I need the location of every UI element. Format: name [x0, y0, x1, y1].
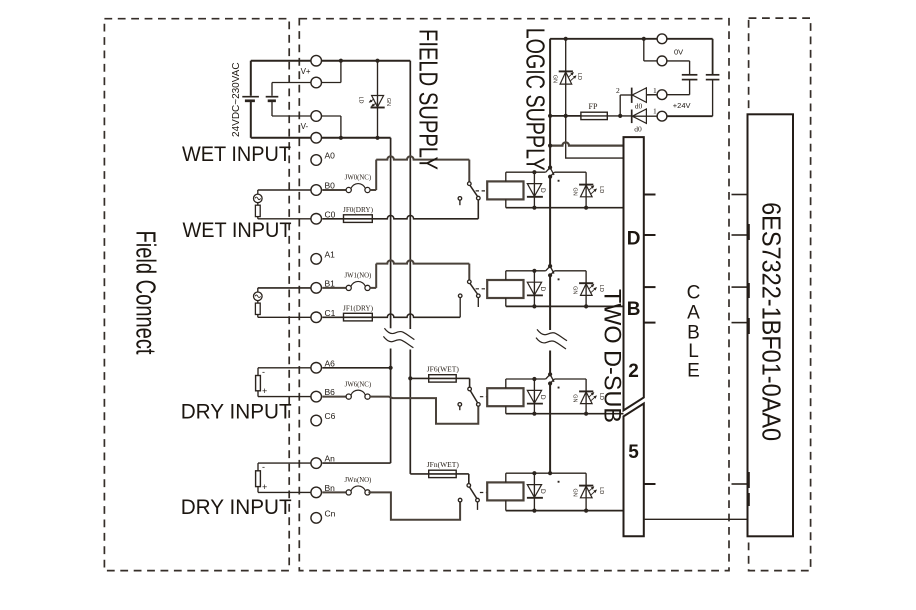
- svg-text:5: 5: [628, 442, 639, 463]
- svg-text:JW0(NC): JW0(NC): [345, 175, 371, 182]
- svg-text:1: 1: [653, 86, 657, 95]
- svg-text:V+: V+: [301, 67, 311, 76]
- svg-text:TWO D-SUB: TWO D-SUB: [598, 289, 625, 423]
- svg-text:C6: C6: [325, 411, 336, 421]
- svg-text:GN: GN: [571, 488, 577, 496]
- svg-text:D: D: [539, 188, 546, 193]
- svg-text:Field Connect: Field Connect: [131, 231, 162, 355]
- svg-text:JF1(DRY): JF1(DRY): [343, 304, 374, 312]
- svg-text:C: C: [687, 283, 701, 304]
- svg-text:GN: GN: [385, 98, 391, 106]
- svg-text:-: -: [262, 462, 265, 472]
- svg-text:L: L: [688, 341, 699, 362]
- svg-text:1: 1: [653, 107, 657, 116]
- svg-text:6ES7322-1BF01-0AA0: 6ES7322-1BF01-0AA0: [756, 202, 786, 441]
- svg-text:LD: LD: [598, 487, 604, 494]
- svg-text:2: 2: [628, 361, 639, 382]
- svg-text:GN: GN: [552, 75, 558, 83]
- svg-text:A0: A0: [325, 151, 336, 161]
- svg-text:0V: 0V: [674, 47, 683, 56]
- svg-text:+: +: [262, 386, 267, 396]
- svg-text:D: D: [539, 287, 546, 292]
- svg-text:2: 2: [616, 86, 620, 95]
- svg-text:24VDC~230VAC: 24VDC~230VAC: [231, 62, 242, 137]
- svg-text:JWn(NO): JWn(NO): [344, 477, 371, 484]
- svg-text:GN: GN: [571, 286, 577, 294]
- svg-text:C0: C0: [325, 209, 336, 219]
- svg-text:B: B: [627, 299, 641, 320]
- svg-text:-: -: [262, 367, 265, 377]
- svg-text:A6: A6: [325, 358, 336, 368]
- svg-text:A1: A1: [325, 249, 336, 259]
- svg-text:D: D: [539, 395, 546, 400]
- svg-text:FP: FP: [589, 102, 598, 111]
- svg-text:+24V: +24V: [673, 101, 691, 110]
- svg-text:DRY INPUT: DRY INPUT: [181, 400, 292, 423]
- svg-text:GN: GN: [571, 187, 577, 195]
- svg-text:d0: d0: [634, 125, 642, 134]
- svg-text:V-: V-: [301, 122, 309, 131]
- svg-text:+: +: [262, 482, 267, 492]
- svg-text:A: A: [687, 303, 700, 324]
- svg-text:GN: GN: [571, 394, 577, 402]
- svg-text:E: E: [687, 361, 700, 382]
- svg-text:JF6(WET): JF6(WET): [427, 365, 460, 374]
- svg-text:FIELD SUPPLY: FIELD SUPPLY: [413, 29, 443, 170]
- svg-text:Cn: Cn: [325, 508, 336, 518]
- svg-text:LD: LD: [598, 186, 604, 193]
- svg-text:An: An: [325, 454, 336, 464]
- svg-text:D: D: [627, 228, 641, 249]
- svg-text:LD: LD: [576, 73, 582, 80]
- svg-text:D: D: [539, 489, 546, 494]
- svg-text:LD: LD: [358, 96, 364, 103]
- svg-text:C1: C1: [325, 308, 336, 318]
- svg-text:JF0(DRY): JF0(DRY): [343, 206, 374, 214]
- svg-text:JW6(NC): JW6(NC): [345, 381, 371, 388]
- svg-text:d0: d0: [635, 102, 643, 111]
- svg-text:LOGIC SUPPLY: LOGIC SUPPLY: [521, 28, 551, 171]
- svg-text:DRY INPUT: DRY INPUT: [181, 496, 292, 519]
- svg-text:JW1(NO): JW1(NO): [344, 273, 371, 280]
- svg-text:JFn(WET): JFn(WET): [427, 460, 460, 469]
- svg-text:WET INPUT: WET INPUT: [182, 143, 291, 166]
- svg-text:WET INPUT: WET INPUT: [183, 219, 292, 242]
